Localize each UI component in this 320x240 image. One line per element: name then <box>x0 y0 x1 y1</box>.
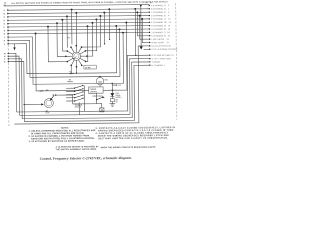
wire drop row F to S1 contact 9 <box>56 22 66 56</box>
wire row L left segment <box>8 43 26 45</box>
wire row A drop to ground arrow <box>139 5 143 50</box>
wire row B drop to terminal R <box>134 8 136 56</box>
svg-text:E: E <box>4 23 6 25</box>
rotary switch S1 contact spokes <box>65 45 88 68</box>
svg-text:1N538: 1N538 <box>116 95 121 97</box>
notes left column <box>28 129 96 143</box>
svg-text:S +27 V THRU FUSE: S +27 V THRU FUSE <box>152 58 172 60</box>
wire drop row B to S1 contact 11 <box>71 9 73 45</box>
svg-text:T SPARE: T SPARE <box>152 61 161 64</box>
svg-text:MOMENTARY: MOMENTARY <box>93 95 103 98</box>
R1 wiper arrow <box>50 95 54 101</box>
wire rows J1 to J2 (channel lines) <box>8 9 150 34</box>
svg-text:M: M <box>4 53 6 55</box>
svg-text:C (CHANNEL 3) 6: C (CHANNEL 3) 6 <box>151 11 169 14</box>
svg-text:J (CHANNEL 7) 18: J (CHANNEL 7) 18 <box>151 31 169 34</box>
svg-text:NOTE 2: NOTE 2 <box>75 106 81 108</box>
wire bottom bus 2 <box>19 59 150 116</box>
wire drop row G to S1 contact 8 <box>47 25 67 61</box>
rotary switch S1 wiper arrow <box>73 56 76 59</box>
wire feed to R1 with arrow <box>24 103 44 105</box>
svg-text:DS1: DS1 <box>104 79 107 81</box>
R1 contact dot and wire to S3 <box>55 94 97 104</box>
wire drop row D to S1 contact 1 <box>66 15 68 47</box>
label CR1 <box>116 93 122 99</box>
svg-text:P: P <box>4 59 6 61</box>
wire S2 common down to bus <box>84 102 86 112</box>
wire N to bottom bus 2 <box>8 56 19 115</box>
wire bottom bus 3 <box>22 62 151 119</box>
svg-text:CONTROL: CONTROL <box>90 91 98 93</box>
svg-text:10 MC: 10 MC <box>85 67 91 69</box>
svg-text:Control, Frequency Selector C-: Control, Frequency Selector C-2742/VRC, … <box>40 156 132 161</box>
wire top bus <box>4 5 149 6</box>
svg-text:K: K <box>4 40 6 42</box>
svg-text:F: F <box>4 27 6 29</box>
switch S3 contact <box>96 96 105 103</box>
svg-text:D: D <box>4 20 6 22</box>
svg-text:CR1: CR1 <box>116 93 119 95</box>
svg-text:L (MC UNITS) 22: L (MC UNITS) 22 <box>151 39 169 41</box>
wire drop row C right to S1 contact 1 <box>81 15 101 47</box>
svg-text:NOTES:: NOTES: <box>61 128 69 130</box>
svg-text:DIM: DIM <box>40 91 44 93</box>
wire row stub r13 <box>144 48 150 50</box>
svg-text:S2: S2 <box>69 79 71 81</box>
wire diode branch vertical <box>112 83 113 93</box>
svg-text:G (CHANNEL 9) 14: G (CHANNEL 9) 14 <box>151 24 170 27</box>
wire row r12 riser <box>14 46 139 124</box>
wire drop row C to S1 contact 12 <box>75 12 77 46</box>
enclosure boundary right (dashed) <box>176 3 177 119</box>
connector J1 terminals group B <box>4 53 9 64</box>
wire row J right drop to diode bus <box>122 32 124 84</box>
switch S1 rear section label box <box>84 65 97 69</box>
terminal stub E2 <box>112 84 122 86</box>
svg-text:NOTE: NOTE <box>46 112 50 114</box>
wire row K right drop to dimmer box <box>102 22 128 91</box>
svg-text:68: 68 <box>52 95 54 97</box>
svg-text:A: A <box>4 9 6 12</box>
dimmer control R1 circle <box>44 99 53 108</box>
notes continuation lines <box>56 145 157 151</box>
wire row G right drop to lamp bus <box>115 25 117 73</box>
svg-text:A (CHANNEL 5) 2: A (CHANNEL 5) 2 <box>151 4 169 7</box>
svg-text:J: J <box>4 37 5 39</box>
wire dimmer box to S3 <box>96 93 98 99</box>
svg-text:C: C <box>4 17 6 19</box>
ground below R2 <box>110 102 116 107</box>
svg-text:N (LO LOCKOUT) 26: N (LO LOCKOUT) 26 <box>151 45 170 47</box>
wire drop row B right stub <box>103 12 105 45</box>
svg-text:R: R <box>4 62 6 64</box>
enclosure boundary left (dashed) <box>8 9 9 126</box>
wire row K right stub riser <box>139 15 150 40</box>
label R2 <box>116 99 118 103</box>
wire drop row E right to S1 contact 3 <box>87 22 94 56</box>
wire drop row E to S1 contact 10 <box>61 19 67 51</box>
svg-text:H (CHANNEL 8) 16: H (CHANNEL 8) 16 <box>151 28 170 31</box>
label DIM R1 <box>40 90 55 97</box>
dimmer assembly box A1 <box>89 87 104 93</box>
wire S2 second common down <box>78 102 80 114</box>
notes right column <box>95 126 175 140</box>
terminal E1 chassis <box>97 104 104 112</box>
svg-text:J2: J2 <box>150 2 152 4</box>
svg-text:K (CHANNEL 6) 20: K (CHANNEL 6) 20 <box>151 34 170 37</box>
label S2 front <box>67 79 72 83</box>
svg-text:27V: 27V <box>118 85 122 87</box>
connector J2 terminals group 1 <box>149 4 178 51</box>
wire row stub r12 <box>138 45 149 47</box>
connector J2 label <box>145 2 152 4</box>
wire bottom bus 1 <box>16 55 150 112</box>
svg-text:68: 68 <box>116 101 118 103</box>
label under S2 contacts <box>75 104 83 109</box>
svg-text:E (CHANNEL 1) 10: E (CHANNEL 1) 10 <box>151 18 170 21</box>
wire row H to dimmer box <box>35 32 89 91</box>
svg-text:F (CHANNEL 10) 12: F (CHANNEL 10) 12 <box>151 21 171 24</box>
svg-text:DIMMER: DIMMER <box>90 89 97 91</box>
svg-text:THE SWITCH ASSEMBLY NOTED HERE: THE SWITCH ASSEMBLY NOTED HERE. <box>56 148 98 151</box>
wire drop row A right stub <box>108 8 110 40</box>
label S1 rear <box>69 71 74 75</box>
svg-text:S1: S1 <box>69 71 71 73</box>
wire row L right stub riser <box>141 18 149 43</box>
connector J1 label <box>4 2 7 6</box>
label R1 value <box>45 110 49 114</box>
wire drop row D right to S1 contact 2 <box>85 18 98 50</box>
connector J1 terminals group A <box>4 9 9 46</box>
resistor R2 <box>110 96 114 101</box>
wire drop row F right to S1 contact 4 <box>85 25 89 61</box>
wire row L to lamp bus <box>27 43 117 74</box>
svg-text:R2: R2 <box>116 99 118 101</box>
lamp DS1 <box>96 76 104 87</box>
svg-text:U CHANNEL 1: U CHANNEL 1 <box>152 64 165 67</box>
note header text <box>11 0 168 5</box>
svg-text:P2: P2 <box>145 2 147 4</box>
wire row K to lamp feed <box>30 39 120 77</box>
svg-text:S1: S1 <box>68 37 70 39</box>
svg-text:D (CHANNEL 2) 8: D (CHANNEL 2) 8 <box>151 14 169 17</box>
svg-text:FRONT: FRONT <box>68 81 73 83</box>
rotary switch S1 wafer circle <box>72 52 80 60</box>
wiper arrow on row L <box>13 44 15 51</box>
wire S1 contact 7 to lamp bus <box>70 65 71 74</box>
svg-text:H: H <box>4 34 6 36</box>
wire row K left segment <box>8 39 29 41</box>
wire row J to diode bus <box>33 36 124 84</box>
svg-text:R TO ONE MC SWITCH: R TO ONE MC SWITCH <box>152 55 174 57</box>
wire R to bottom bus 4 <box>8 62 24 122</box>
wire row H right drop to lamp feed <box>119 28 121 76</box>
wire P to bottom bus 3 <box>8 59 22 119</box>
wire M to bottom bus 1 <box>8 53 16 112</box>
svg-text:3. S3 ACTUATED BY ROTATION OF: 3. S3 ACTUATED BY ROTATION OF EITHER KNO… <box>29 140 85 144</box>
svg-text:M (MC TENS) 24: M (MC TENS) 24 <box>151 42 168 44</box>
svg-text:G: G <box>4 30 6 32</box>
diode CR1 <box>110 93 114 96</box>
svg-text:WHEN THE WIRING CONTACTS RESIS: WHEN THE WIRING CONTACTS RESISTANCE LIMI… <box>101 146 157 150</box>
wire row J right stub riser <box>136 11 149 36</box>
wire bottom bus 4 riser to row r13 <box>24 65 151 121</box>
wire row J left segment <box>8 36 32 38</box>
svg-text:L: L <box>4 44 6 46</box>
svg-text:B: B <box>4 13 6 15</box>
svg-text:B (CHANNEL 4) 4: B (CHANNEL 4) 4 <box>151 7 169 10</box>
svg-text:P TO LO POWER CONTROL: P TO LO POWER CONTROL <box>152 49 178 51</box>
connector J2 terminals group 2 <box>149 54 174 67</box>
wire S1 contact 6 to lamp bus <box>76 67 77 74</box>
switch S2 stacked contacts <box>66 85 84 102</box>
